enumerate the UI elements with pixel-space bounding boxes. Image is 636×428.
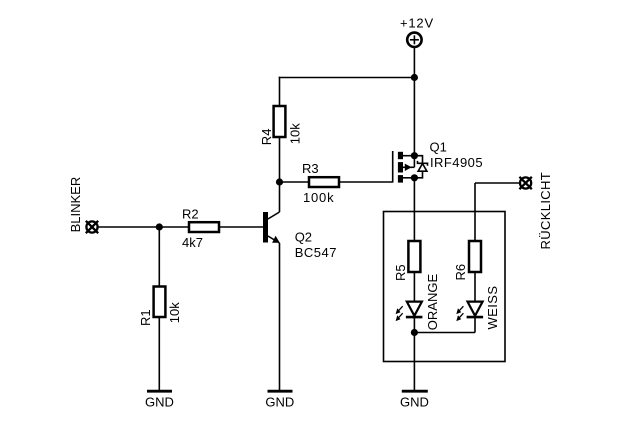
svg-text:Q1: Q1 <box>430 139 447 154</box>
svg-text:Q2: Q2 <box>295 230 312 245</box>
svg-text:R6: R6 <box>453 264 468 281</box>
svg-text:10k: 10k <box>167 302 182 323</box>
svg-text:100k: 100k <box>303 190 334 205</box>
svg-text:GND: GND <box>265 395 294 410</box>
svg-text:4k7: 4k7 <box>182 235 203 250</box>
svg-text:R4: R4 <box>259 129 274 146</box>
svg-text:IRF4905: IRF4905 <box>430 155 483 170</box>
svg-text:R5: R5 <box>393 264 408 281</box>
svg-text:R3: R3 <box>302 161 319 176</box>
svg-text:R2: R2 <box>182 206 199 221</box>
svg-text:GND: GND <box>145 395 174 410</box>
svg-text:BC547: BC547 <box>295 245 337 260</box>
svg-text:RÜCKLICHT: RÜCKLICHT <box>538 172 553 250</box>
svg-text:10k: 10k <box>288 123 303 144</box>
svg-text:R1: R1 <box>138 309 153 326</box>
svg-text:BLINKER: BLINKER <box>68 177 83 233</box>
svg-text:+12V: +12V <box>400 16 434 31</box>
svg-text:GND: GND <box>400 395 429 410</box>
svg-text:WEISS: WEISS <box>485 286 500 330</box>
svg-text:ORANGE: ORANGE <box>425 274 440 331</box>
